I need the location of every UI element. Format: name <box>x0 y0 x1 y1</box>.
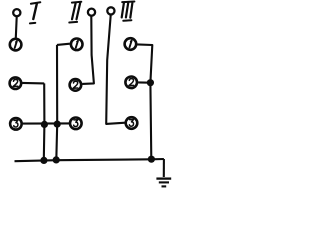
junction dot D6 (right line x bus) <box>148 156 155 163</box>
wire T1 stem to tap 1 <box>15 17 18 38</box>
wire vertical line A down to bus <box>43 83 46 160</box>
wire L2 to vertical line A <box>22 82 44 85</box>
tap M3 (circled 3, middle) <box>70 118 82 130</box>
tap R3 (circled 3, right) <box>126 117 138 129</box>
tap L3 (circled 3, left) <box>10 118 22 130</box>
junction dot D3 (line A x bus) <box>40 157 47 164</box>
junction dot D2 (line B x row3) <box>54 121 61 128</box>
wire M1 to vertical line B <box>57 44 70 45</box>
tap R1 (circled 1, right) <box>125 38 137 50</box>
tap L1 (circled 1, left) <box>10 39 22 51</box>
wire T2b down to R3 <box>106 15 125 124</box>
wire ground bus <box>15 159 164 161</box>
wire ground stub <box>163 159 165 177</box>
label II (winding II) <box>69 2 81 23</box>
terminal T1 (winding I top) <box>13 9 20 16</box>
terminal T2b (winding II right top) <box>107 7 114 14</box>
tap M2 (circled 2, middle) <box>70 79 82 91</box>
junction dot D5 (R1/R2 wires) <box>147 79 154 86</box>
wire R2 to junction <box>138 81 150 83</box>
junction dot D1 (line A x row3) <box>41 121 48 128</box>
wire L3 row to M3 <box>23 122 70 124</box>
wire vertical line B down to bus <box>55 45 58 160</box>
label III (winding III) <box>122 2 135 21</box>
wire M2 up to terminal T2a <box>82 16 94 84</box>
tap M1 (circled 1, middle) <box>71 39 83 51</box>
terminal T2a (winding II left top) <box>88 9 95 16</box>
ground symbol <box>156 179 171 187</box>
tap L2 (circled 2, left) <box>10 77 22 89</box>
label I (winding I) <box>30 2 40 23</box>
wire R1 right and down to bus <box>137 44 152 159</box>
junction dot D4 (line B x bus) <box>53 156 60 163</box>
tap R2 (circled 2, right) <box>125 77 137 89</box>
